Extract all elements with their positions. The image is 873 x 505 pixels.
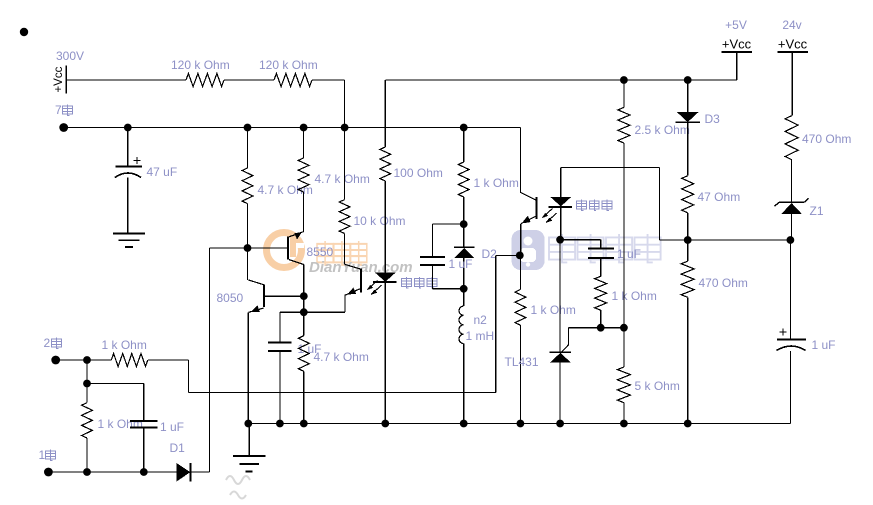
label R12 1 k Ohm <box>612 289 657 303</box>
junction rail R14 <box>620 420 628 428</box>
transistor Q2 8050 base bar <box>263 284 265 307</box>
LED D5 (guangdianguan) <box>373 272 397 282</box>
svg-text:1 k Ohm: 1 k Ohm <box>474 176 519 190</box>
svg-text:+Vcc: +Vcc <box>778 37 808 52</box>
junction rail R16 <box>684 420 692 428</box>
junction at R3 top <box>244 124 252 132</box>
wire R15 bottom lead <box>687 213 689 240</box>
wire R7 bottom lead <box>303 371 305 423</box>
node +5V Vcc symbol <box>721 52 752 80</box>
junction rail C2 <box>276 420 284 428</box>
label R8 1 k Ohm <box>102 338 147 352</box>
label D2 <box>482 247 498 261</box>
label 24v <box>782 18 801 32</box>
phototransistor T3 emitter <box>345 288 361 296</box>
wire TL431 ref <box>569 327 624 329</box>
svg-text:1 k Ohm: 1 k Ohm <box>102 338 147 352</box>
label C4 1 uF <box>449 257 473 271</box>
wire R5 bottom to T3 collector <box>344 234 346 265</box>
svg-text:Z1: Z1 <box>810 204 824 218</box>
label pin 2 (2jiao) <box>44 336 62 350</box>
wire D2 bottom lead <box>463 258 465 289</box>
label D5 guangdianguan <box>402 277 438 288</box>
terminal pin1 <box>44 468 53 477</box>
svg-text:100 Ohm: 100 Ohm <box>394 166 443 180</box>
wire R16 top lead <box>687 240 689 261</box>
wire Z1 node to C6 <box>789 240 791 339</box>
resistor R14 5 k Ohm <box>617 367 630 403</box>
svg-text:7: 7 <box>55 103 62 117</box>
wire comp mid <box>600 258 602 276</box>
label R4 4.7 k Ohm <box>315 172 370 186</box>
svg-text:120 k Ohm: 120 k Ohm <box>171 58 230 72</box>
wire T4 emitter down <box>520 224 522 256</box>
svg-text:470 Ohm: 470 Ohm <box>699 276 748 290</box>
wire n2 bottom lead <box>463 344 465 424</box>
label R5 10 k Ohm <box>354 214 406 228</box>
label R14 5 k Ohm <box>635 379 680 393</box>
wire D5 cathode to ground rail <box>384 282 386 424</box>
wire R4 bottom to Q1 emitter <box>303 192 305 232</box>
label C3 1 uF <box>160 420 184 434</box>
junction Q1 base node <box>244 244 252 252</box>
svg-text:D2: D2 <box>482 247 498 261</box>
svg-text:+Vcc: +Vcc <box>722 37 752 52</box>
phototransistor T3 collector <box>345 264 361 269</box>
wire node to T3 emitter <box>304 311 345 313</box>
label +Vcc (+5V) <box>722 37 752 52</box>
svg-text:1 k Ohm: 1 k Ohm <box>612 289 657 303</box>
wire D1 cathode to Q1 base line <box>190 248 247 472</box>
junction TL431 cathode node <box>556 236 564 244</box>
wire ground rail (y=423.5) <box>248 423 791 425</box>
svg-text:4.7 k Ohm: 4.7 k Ohm <box>314 350 369 364</box>
wire R6 top lead <box>384 80 386 147</box>
diode D1 <box>177 463 191 482</box>
label +Vcc (300V, rotated) <box>53 66 65 92</box>
ground G2 <box>233 424 266 472</box>
wire feedback run <box>148 255 520 392</box>
capacitor C1 47 uF <box>115 157 142 178</box>
junction rail n2 <box>460 420 468 428</box>
label Q2 8050 <box>217 291 244 305</box>
phototransistor T4 emitter <box>521 216 537 224</box>
wire R9 top lead <box>86 360 88 403</box>
bullet dot <box>20 28 28 36</box>
junction R15 / R16 node <box>684 236 692 244</box>
junction rail R11 <box>517 420 525 428</box>
wire R5 top lead <box>344 128 346 200</box>
opto light arrows 2 <box>542 209 557 224</box>
watermark dianzi xingqiu text <box>549 234 661 262</box>
inductor n2 1 mH <box>459 306 464 344</box>
wire Q2 emitter down to ground rail <box>247 312 249 423</box>
label C6 1 uF <box>812 338 836 352</box>
label C2 1 uF <box>298 342 322 356</box>
wire pin7 rail corner down to T4 collector <box>519 128 521 193</box>
resistor R4 4.7 k Ohm <box>298 158 309 192</box>
svg-text:4.7 k Ohm: 4.7 k Ohm <box>315 172 370 186</box>
junction rail R7 <box>300 420 308 428</box>
wire C3 branch <box>87 384 144 421</box>
wire C2 bottom lead <box>279 352 281 424</box>
transistor Q1 8550 base bar <box>287 236 289 259</box>
wire C3 bottom lead <box>143 429 145 472</box>
watermark DianYuan logo <box>267 233 305 268</box>
diode D2 <box>454 247 475 258</box>
svg-text:+5V: +5V <box>725 18 747 32</box>
svg-text:1 k Ohm: 1 k Ohm <box>531 303 576 317</box>
wire R10 top lead <box>463 128 465 163</box>
wire R14 top lead <box>623 328 625 367</box>
junction Q1 collector lower node <box>300 308 308 316</box>
wire 47uF cap bottom lead <box>127 178 129 234</box>
wire 47uF cap top lead <box>127 128 129 167</box>
label R10 1 k Ohm <box>474 176 519 190</box>
label R7 4.7 k Ohm <box>314 350 369 364</box>
wire C6 bottom to rail <box>789 351 791 424</box>
label n2 <box>474 313 488 327</box>
wire Q1 base <box>248 247 288 249</box>
wire C2 top lead <box>279 312 281 342</box>
label Z1 <box>810 204 824 218</box>
wire D4 anode loop <box>561 167 688 240</box>
svg-text:1 uF: 1 uF <box>160 420 184 434</box>
svg-text:47 uF: 47 uF <box>147 165 178 179</box>
junction at R4 top <box>300 124 308 132</box>
watermark dianyuanwang text <box>317 241 367 265</box>
wire D2 top lead <box>463 224 465 247</box>
svg-text:D1: D1 <box>170 441 186 455</box>
resistor R6 100 Ohm <box>380 147 391 181</box>
wire D3 anode <box>687 80 689 112</box>
opto light arrows 1 <box>367 281 382 296</box>
label R6 100 Ohm <box>394 166 443 180</box>
zener Z1 <box>775 198 809 214</box>
svg-text:470 Ohm: 470 Ohm <box>802 132 851 146</box>
junction D2 cathode node <box>460 285 468 293</box>
label R15 47 Ohm <box>698 190 741 204</box>
wire Z1 anode <box>791 214 793 239</box>
label R13 2.5 k Ohm <box>635 123 690 137</box>
svg-text:4.7 k Ohm: 4.7 k Ohm <box>258 183 313 197</box>
wire R17 bottom lead <box>791 160 793 203</box>
capacitor C4 1 uF (parallel with D2) <box>420 224 464 289</box>
watermark DianYuan.com <box>309 259 413 276</box>
terminal pin2 <box>51 356 60 365</box>
capacitor C5 1 uF <box>588 248 614 258</box>
capacitor C6 1 uF <box>777 329 807 351</box>
junction R9 bottom <box>83 468 91 476</box>
wire node to Z1 node <box>688 239 791 241</box>
wire D4 cathode down <box>560 207 562 240</box>
wire R6 bottom to LED D5 <box>384 181 386 272</box>
label R2 120 k Ohm <box>259 58 318 72</box>
diode D3 <box>676 112 700 122</box>
wire R11 bottom lead <box>519 325 521 423</box>
wire drop from R2 to pin7 rail <box>344 80 346 128</box>
svg-text:5 k Ohm: 5 k Ohm <box>635 379 680 393</box>
resistor R9 1 k Ohm <box>82 403 93 438</box>
resistor R5 10 k Ohm <box>339 200 350 234</box>
wire +5V top rail (y=80 right segment) <box>386 79 738 81</box>
wire Q1 base node down to Q2 collector <box>247 248 249 280</box>
label 1 mH <box>466 329 495 343</box>
junction C3 branch <box>83 380 91 388</box>
wire R11 top lead <box>519 255 521 289</box>
wire D3 cathode <box>687 122 689 175</box>
svg-text:1 k Ohm: 1 k Ohm <box>98 417 143 431</box>
junction ref / divider <box>620 324 628 332</box>
phototransistor T4 base bar <box>535 197 537 219</box>
junction at R10 top <box>460 124 468 132</box>
wire pin2 to R8 <box>56 359 112 361</box>
label R9 1 k Ohm <box>98 417 143 431</box>
label R3 4.7 k Ohm <box>258 183 313 197</box>
ground G1 <box>113 234 145 248</box>
wire node to C2 <box>280 311 304 313</box>
wire R10 bottom lead <box>463 197 465 224</box>
label pin 7 (7jiao) <box>55 103 72 117</box>
svg-text:47 Ohm: 47 Ohm <box>698 190 741 204</box>
wire R16 bottom lead <box>687 297 689 423</box>
wire R14 bottom lead <box>623 403 625 424</box>
wire top 300V rail (y=80 left segment) <box>66 79 344 81</box>
transistor Q1 collector <box>289 260 304 297</box>
svg-text:D3: D3 <box>705 112 721 126</box>
resistor R17 470 Ohm <box>785 116 798 160</box>
transistor Q2 collector <box>248 280 264 285</box>
label Q1 8550 <box>307 245 334 259</box>
resistor R13 2.5 k Ohm <box>618 107 630 143</box>
resistor R10 1 k Ohm <box>458 162 469 197</box>
label D3 <box>705 112 721 126</box>
junction R9 top <box>83 356 91 364</box>
junction at 47uF top <box>124 124 132 132</box>
label pin 1 (1jiao) <box>39 448 56 462</box>
svg-text:300V: 300V <box>56 49 84 63</box>
wire TL431 cathode <box>559 240 561 353</box>
junction rail Q2 emitter <box>244 420 252 428</box>
svg-text:10 k Ohm: 10 k Ohm <box>354 214 406 228</box>
wire T3 emitter jog <box>344 295 346 312</box>
resistor R2 120 k Ohm <box>274 74 312 87</box>
svg-text:+Vcc: +Vcc <box>53 66 65 92</box>
svg-text:1 uF: 1 uF <box>812 338 836 352</box>
label TL431 <box>505 355 539 369</box>
resistor R11 1 k Ohm <box>515 290 526 326</box>
wire Q2 base <box>265 295 304 297</box>
junction Q1 collector / Q2 base <box>300 292 308 300</box>
wire R3 top lead <box>247 128 249 169</box>
wire R13 bottom lead <box>623 143 625 328</box>
svg-text:n2: n2 <box>474 313 488 327</box>
watermark dianzi xingqiu badge <box>512 230 545 270</box>
wire R13 top lead <box>623 80 625 107</box>
node +Vcc 24v symbol <box>777 52 808 116</box>
svg-text:2: 2 <box>44 336 51 350</box>
wire R12 bottom lead <box>600 310 602 328</box>
wire pin1 rail <box>48 471 176 473</box>
junction T4 emitter node <box>516 252 524 260</box>
resistor R1 120 k Ohm <box>186 74 224 87</box>
resistor R12 1 k Ohm <box>595 276 607 310</box>
resistor R3 4.7 k Ohm <box>242 168 253 204</box>
label D4 guangdianguan <box>577 200 613 211</box>
svg-text:1 mH: 1 mH <box>466 329 495 343</box>
phototransistor T3 base bar <box>360 269 362 293</box>
svg-text:TL431: TL431 <box>505 355 539 369</box>
junction rail D5 <box>381 420 389 428</box>
resistor R8 1 k Ohm <box>111 354 148 367</box>
svg-text:1 uF: 1 uF <box>617 247 641 261</box>
resistor R15 47 Ohm <box>682 176 694 213</box>
svg-text:2.5 k Ohm: 2.5 k Ohm <box>635 123 690 137</box>
capacitor C3 1 uF <box>130 421 158 428</box>
transistor Q1 emitter (to R4) <box>289 232 304 240</box>
label R17 470 Ohm <box>802 132 851 146</box>
wire Q1 collector node <box>303 296 305 312</box>
junction rail TL431 <box>556 420 564 428</box>
label R1 120 k Ohm <box>171 58 230 72</box>
svg-text:8050: 8050 <box>217 291 244 305</box>
label +5V <box>725 18 747 32</box>
node +Vcc 300V supply bar <box>65 66 67 94</box>
junction Z1 node <box>787 236 795 244</box>
svg-text:1 uF: 1 uF <box>449 257 473 271</box>
wire R4 top lead <box>303 128 305 159</box>
resistor R7 4.7 k Ohm <box>298 336 309 372</box>
capacitor C2 1 uF <box>268 343 292 351</box>
watermark squiggle near ground <box>226 476 250 499</box>
label 300V <box>56 49 84 63</box>
junction at R5 top <box>341 124 349 132</box>
junction D3 top <box>684 76 692 84</box>
label R11 1 k Ohm <box>531 303 576 317</box>
junction C3 bottom <box>140 468 148 476</box>
svg-text:8550: 8550 <box>307 245 334 259</box>
wire R7 top lead <box>303 312 305 336</box>
wire n2 top lead <box>463 289 465 306</box>
wire comp top <box>560 240 601 248</box>
transistor Q2 emitter <box>248 305 263 312</box>
label +Vcc (24v) <box>778 37 808 52</box>
label R16 470 Ohm <box>699 276 748 290</box>
resistor R16 470 Ohm <box>681 261 694 297</box>
wire R9 bottom lead <box>86 438 88 472</box>
junction R13 top <box>620 76 628 84</box>
svg-text:120 k Ohm: 120 k Ohm <box>259 58 318 72</box>
wire R3 bottom to Q1 base junction <box>247 204 249 248</box>
phototransistor T4 collector <box>520 192 536 200</box>
wire pin7 rail (y=127.5) <box>64 127 521 129</box>
label D1 <box>170 441 186 455</box>
label C1 47 uF <box>147 165 178 179</box>
LED D4 (guangdianguan right) <box>548 197 572 207</box>
wire TL431 anode <box>559 362 561 423</box>
TL431 U1 <box>550 328 572 363</box>
label C5 1 uF <box>617 247 641 261</box>
terminal pin7 <box>59 123 68 132</box>
svg-text:1: 1 <box>39 448 46 462</box>
junction ref / R12 bottom <box>597 324 605 332</box>
junction D2 anode node <box>460 220 468 228</box>
svg-text:24v: 24v <box>782 18 801 32</box>
